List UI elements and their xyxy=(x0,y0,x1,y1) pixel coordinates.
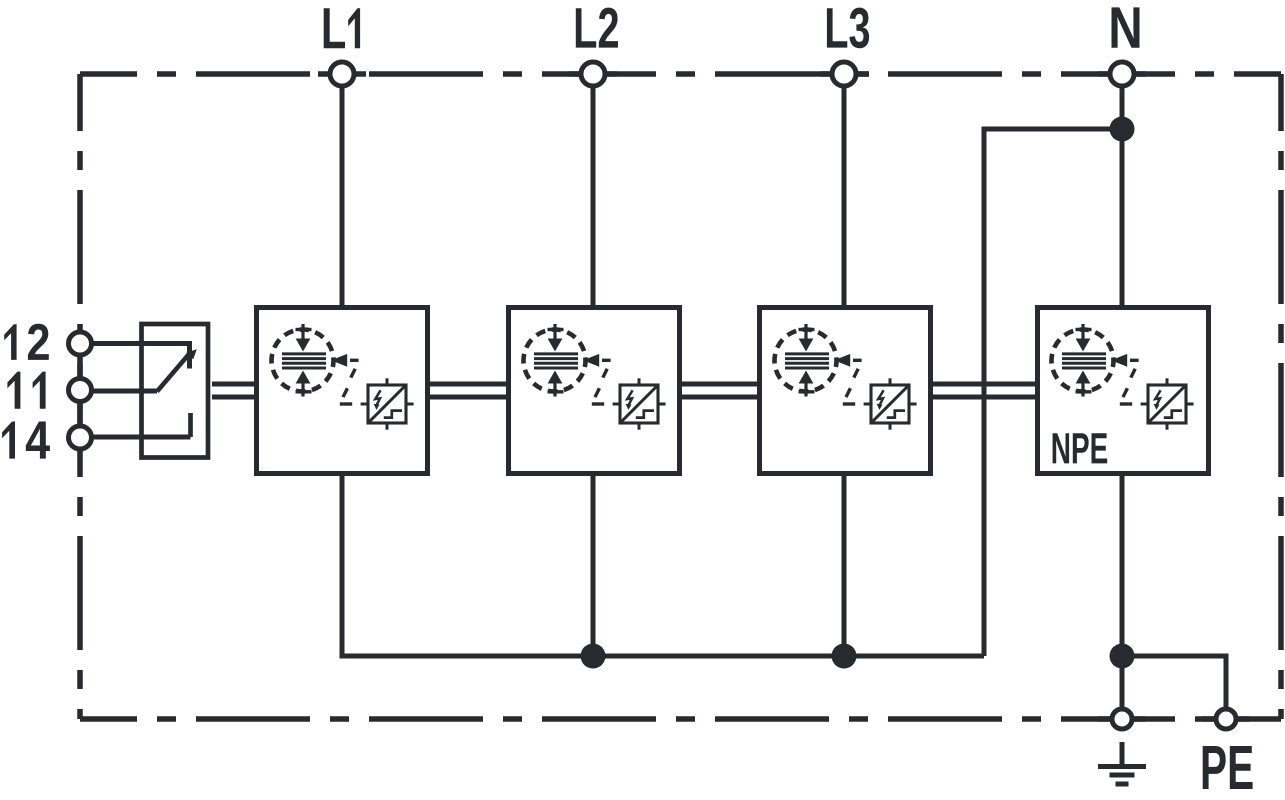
terminal L3 xyxy=(832,62,856,86)
wire L1 terminal to SPD1 xyxy=(340,74,345,307)
bus double line: SPD3 to SPD4 xyxy=(929,384,1038,397)
terminal L1 xyxy=(330,62,354,86)
spark gap + varistor symbol SPD4 xyxy=(1052,324,1194,430)
node SPD3 bottom junction xyxy=(832,644,857,669)
SPD module 3 box xyxy=(760,308,931,474)
bottom PE bus wire xyxy=(342,473,984,656)
wire L2 terminal to SPD2 xyxy=(591,74,596,307)
remote signalling contact box xyxy=(142,324,209,458)
spark gap + varistor symbol SPD3 xyxy=(775,324,917,430)
terminal PE xyxy=(1216,709,1236,729)
spark gap + varistor symbol SPD1 xyxy=(272,324,414,430)
terminal 12 xyxy=(69,332,92,355)
node SPD2 bottom junction xyxy=(581,644,606,669)
label PE xyxy=(1203,746,1253,789)
label NPE xyxy=(1053,433,1108,463)
label N xyxy=(1112,7,1140,47)
label 12 xyxy=(4,324,49,360)
enclosure border (dash-dot) xyxy=(80,74,1281,719)
wire L3 terminal to SPD3 xyxy=(842,74,847,307)
bus double line: switch box to SPD1 xyxy=(212,384,256,397)
label 11 xyxy=(7,372,45,409)
ground terminal xyxy=(1112,709,1132,729)
wire terminal 11 to switch arm xyxy=(80,389,157,394)
terminal 11 xyxy=(69,379,92,402)
wire N terminal to SPD4 (NPE) xyxy=(1120,74,1125,307)
wire terminal 12 to contact with hook xyxy=(80,344,190,369)
spark gap + varistor symbol SPD2 xyxy=(524,324,666,430)
SPD module 4 box (N-PE) xyxy=(1038,308,1209,474)
SPD module 1 box xyxy=(257,308,428,474)
bus double line: SPD2 to SPD3 xyxy=(678,384,759,397)
label L3 xyxy=(827,8,869,49)
SPD module 2 box xyxy=(509,308,680,474)
terminal N xyxy=(1110,62,1134,86)
contact seat for terminal 14 xyxy=(188,413,193,437)
wire SPD4 bottom to ground terminal xyxy=(1120,473,1125,709)
label L2 xyxy=(576,8,618,48)
node NPE bottom junction xyxy=(1110,644,1135,669)
wire NPE junction to PE terminal xyxy=(1122,656,1226,709)
label L1 xyxy=(324,8,360,48)
wire SPD3 bottom xyxy=(842,473,847,656)
node N junction xyxy=(1110,117,1135,142)
border solid underlays at terminals xyxy=(80,74,1250,719)
wire SPD2 bottom xyxy=(591,473,596,656)
terminal 14 xyxy=(69,426,92,449)
wire N branch to bottom bus xyxy=(984,129,1122,656)
changeover switch arm with arrow xyxy=(157,349,197,391)
bus double line: SPD1 to SPD2 xyxy=(428,384,508,397)
terminal L2 xyxy=(581,62,605,86)
wire terminal 14 to contact xyxy=(80,435,191,440)
label 14 xyxy=(2,422,50,459)
earth ground symbol xyxy=(1098,742,1146,784)
